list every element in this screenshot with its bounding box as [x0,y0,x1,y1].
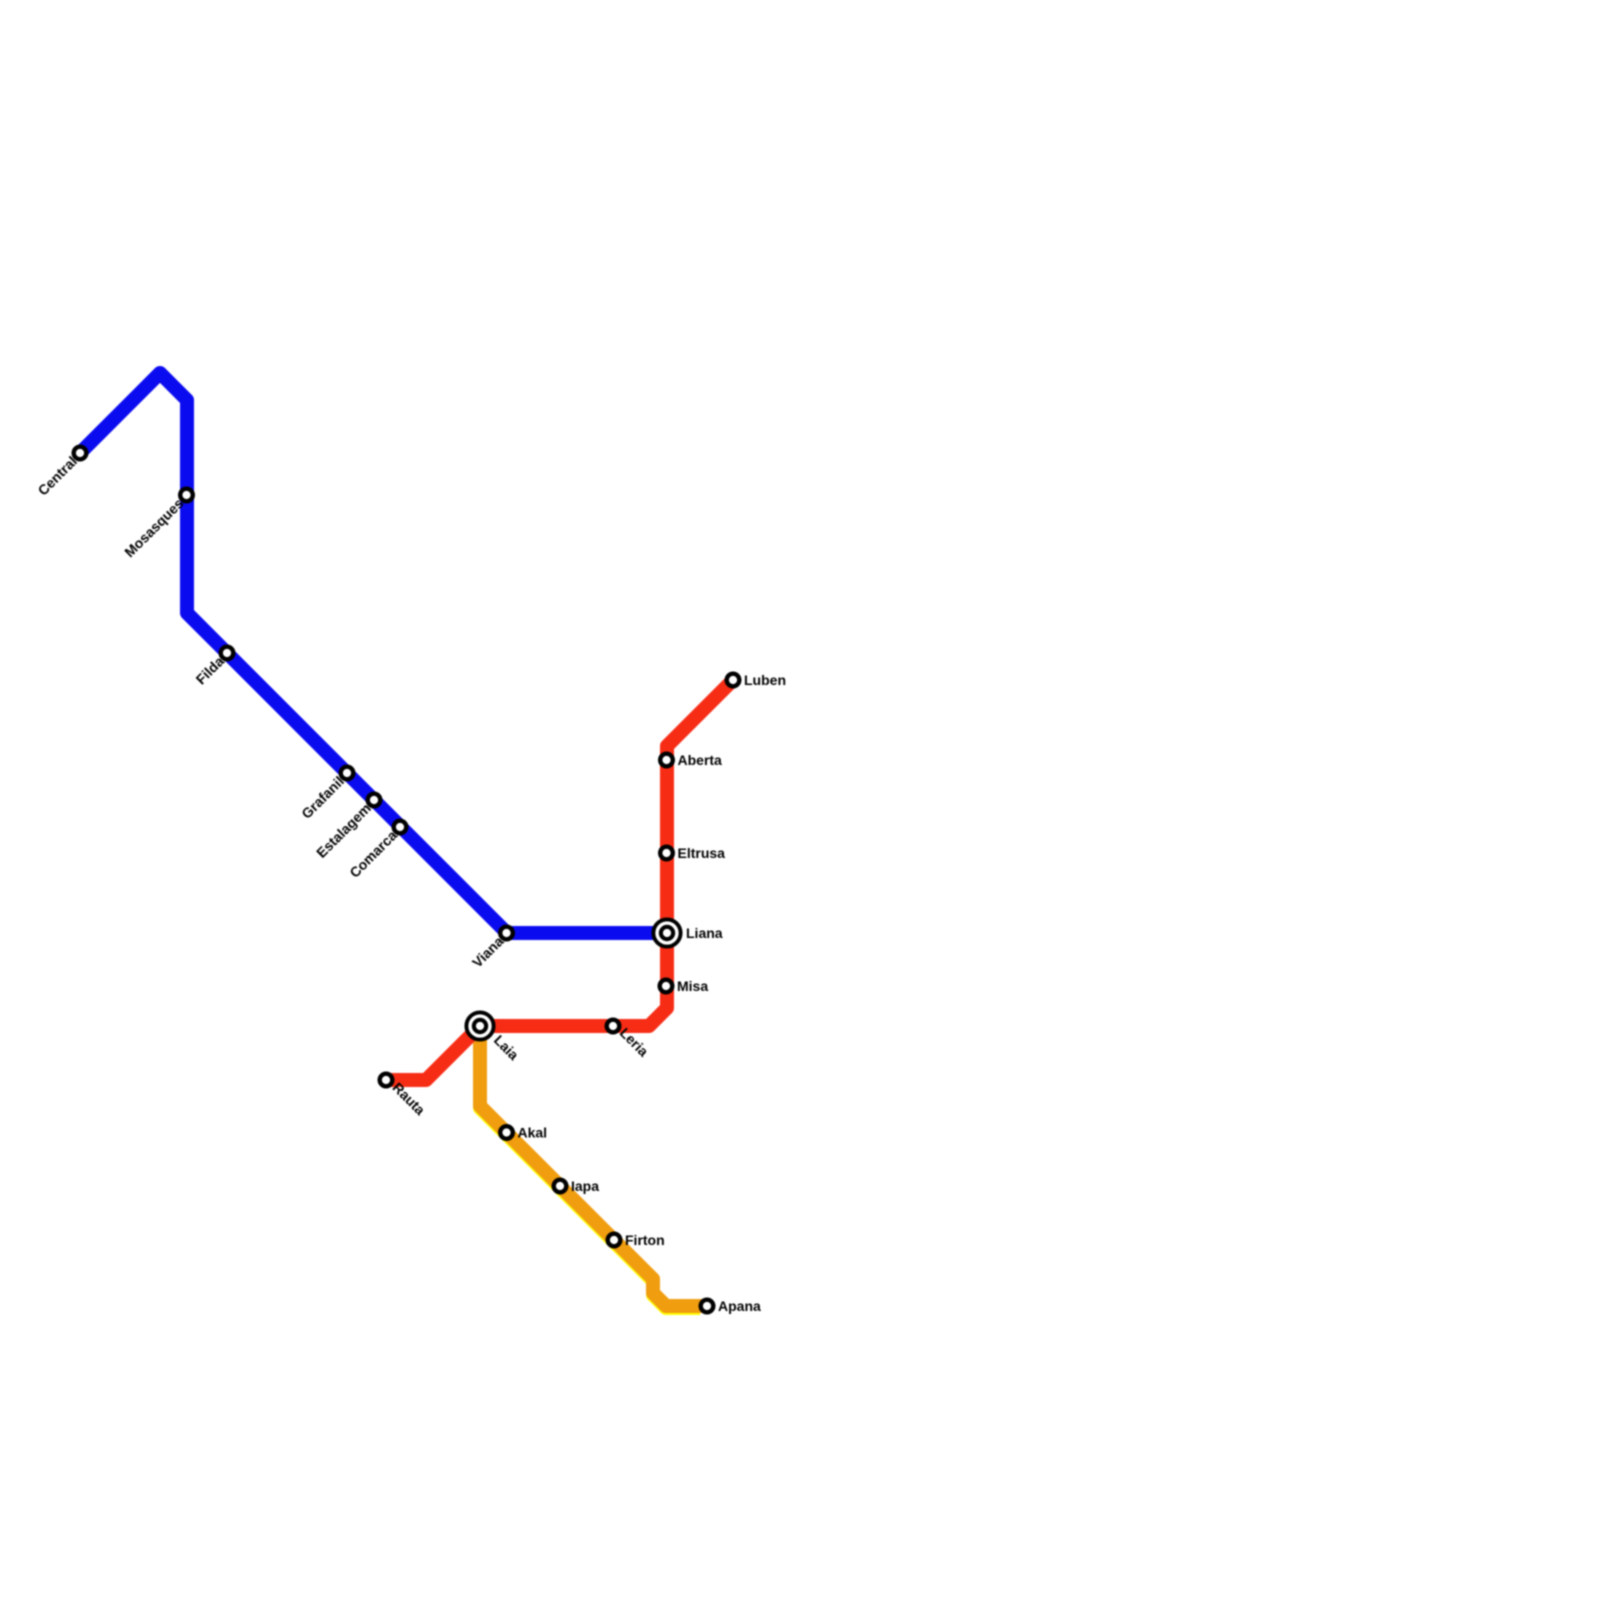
station Comarca [394,821,407,834]
red line (Luben-Rauta) [386,680,733,1080]
svg-text:Liana: Liana [686,925,723,941]
station Apana [701,1300,714,1313]
station Misa [660,980,673,993]
station Grafanil [341,767,354,780]
orange line (Laia-Apana) [480,1026,707,1306]
station Iapa [554,1180,567,1193]
interchange Liana [653,919,680,946]
svg-text:Akal: Akal [518,1125,548,1141]
interchange Laia [466,1012,493,1039]
svg-text:Luben: Luben [744,672,786,688]
blue line (Central-Liana) [80,373,667,933]
station Central [74,447,87,460]
station Eltrusa [660,847,673,860]
station Aberta [660,754,673,767]
station Firton [608,1234,621,1247]
svg-text:Misa: Misa [677,978,708,994]
svg-text:Eltrusa: Eltrusa [678,845,726,861]
station Akal [500,1126,513,1139]
svg-text:Aberta: Aberta [678,752,723,768]
station Viana [500,927,513,940]
station Estalagem [368,794,381,807]
station Mosasques [180,489,193,502]
yellow line (Laia-Apana, under orange) [480,1028,700,1308]
station Leria [607,1020,620,1033]
svg-text:Apana: Apana [718,1298,761,1314]
station Rauta [380,1074,393,1087]
svg-text:Firton: Firton [625,1232,665,1248]
station Filda [221,647,234,660]
station Luben [727,674,740,687]
svg-text:Iapa: Iapa [571,1178,599,1194]
